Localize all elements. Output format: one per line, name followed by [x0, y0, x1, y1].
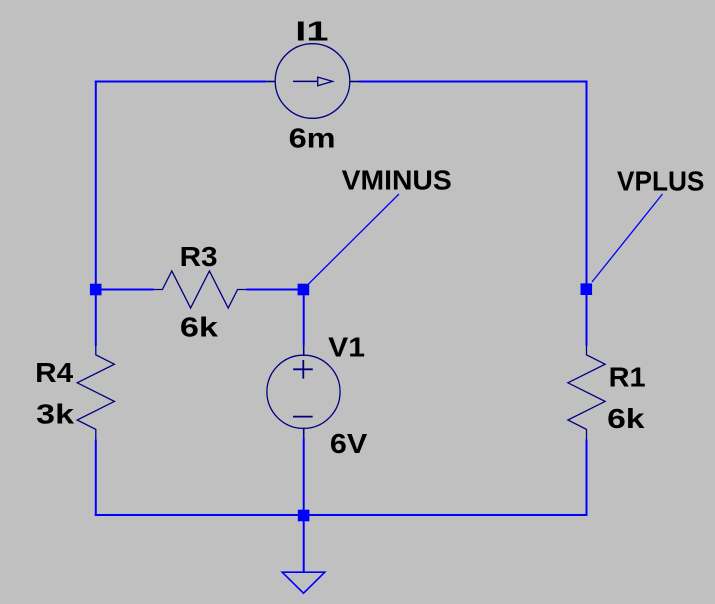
node square left [90, 284, 102, 296]
wire R3 right [246, 289, 303, 291]
wire right rail upper [586, 81, 588, 346]
wire V1 bottom [303, 438, 305, 515]
svg-text:6V: 6V [330, 428, 368, 459]
wire top rail left segment [95, 81, 266, 83]
ground [282, 572, 325, 593]
svg-text:6k: 6k [180, 311, 219, 342]
wire bottom rail [95, 514, 588, 516]
current source I1 [266, 44, 359, 119]
wire VPLUS leader [592, 194, 663, 282]
wire VMINUS leader [309, 194, 400, 284]
svg-text:R4: R4 [35, 357, 74, 388]
svg-text:I1: I1 [295, 15, 328, 46]
svg-text:V1: V1 [328, 332, 365, 363]
wire top rail right segment [359, 81, 588, 83]
node square bottom [298, 510, 310, 522]
svg-text:VMINUS: VMINUS [342, 165, 452, 196]
wire V1 top [303, 290, 305, 346]
resistor R3 [154, 271, 247, 308]
wire left rail upper [95, 81, 97, 346]
svg-text:VPLUS: VPLUS [617, 165, 704, 196]
node square center [298, 284, 310, 296]
node square right [581, 283, 593, 295]
wire ground stub [303, 515, 305, 572]
voltage source V1 [267, 346, 340, 438]
svg-text:R1: R1 [609, 361, 646, 392]
wire left rail lower [95, 440, 97, 517]
wire right rail lower [586, 440, 588, 517]
svg-text:3k: 3k [36, 399, 75, 430]
svg-text:6k: 6k [607, 403, 645, 434]
resistor R1 [568, 345, 605, 439]
svg-text:R3: R3 [180, 241, 218, 272]
wire R3 left [96, 289, 154, 291]
svg-text:6m: 6m [289, 123, 336, 154]
resistor R4 [77, 345, 114, 439]
